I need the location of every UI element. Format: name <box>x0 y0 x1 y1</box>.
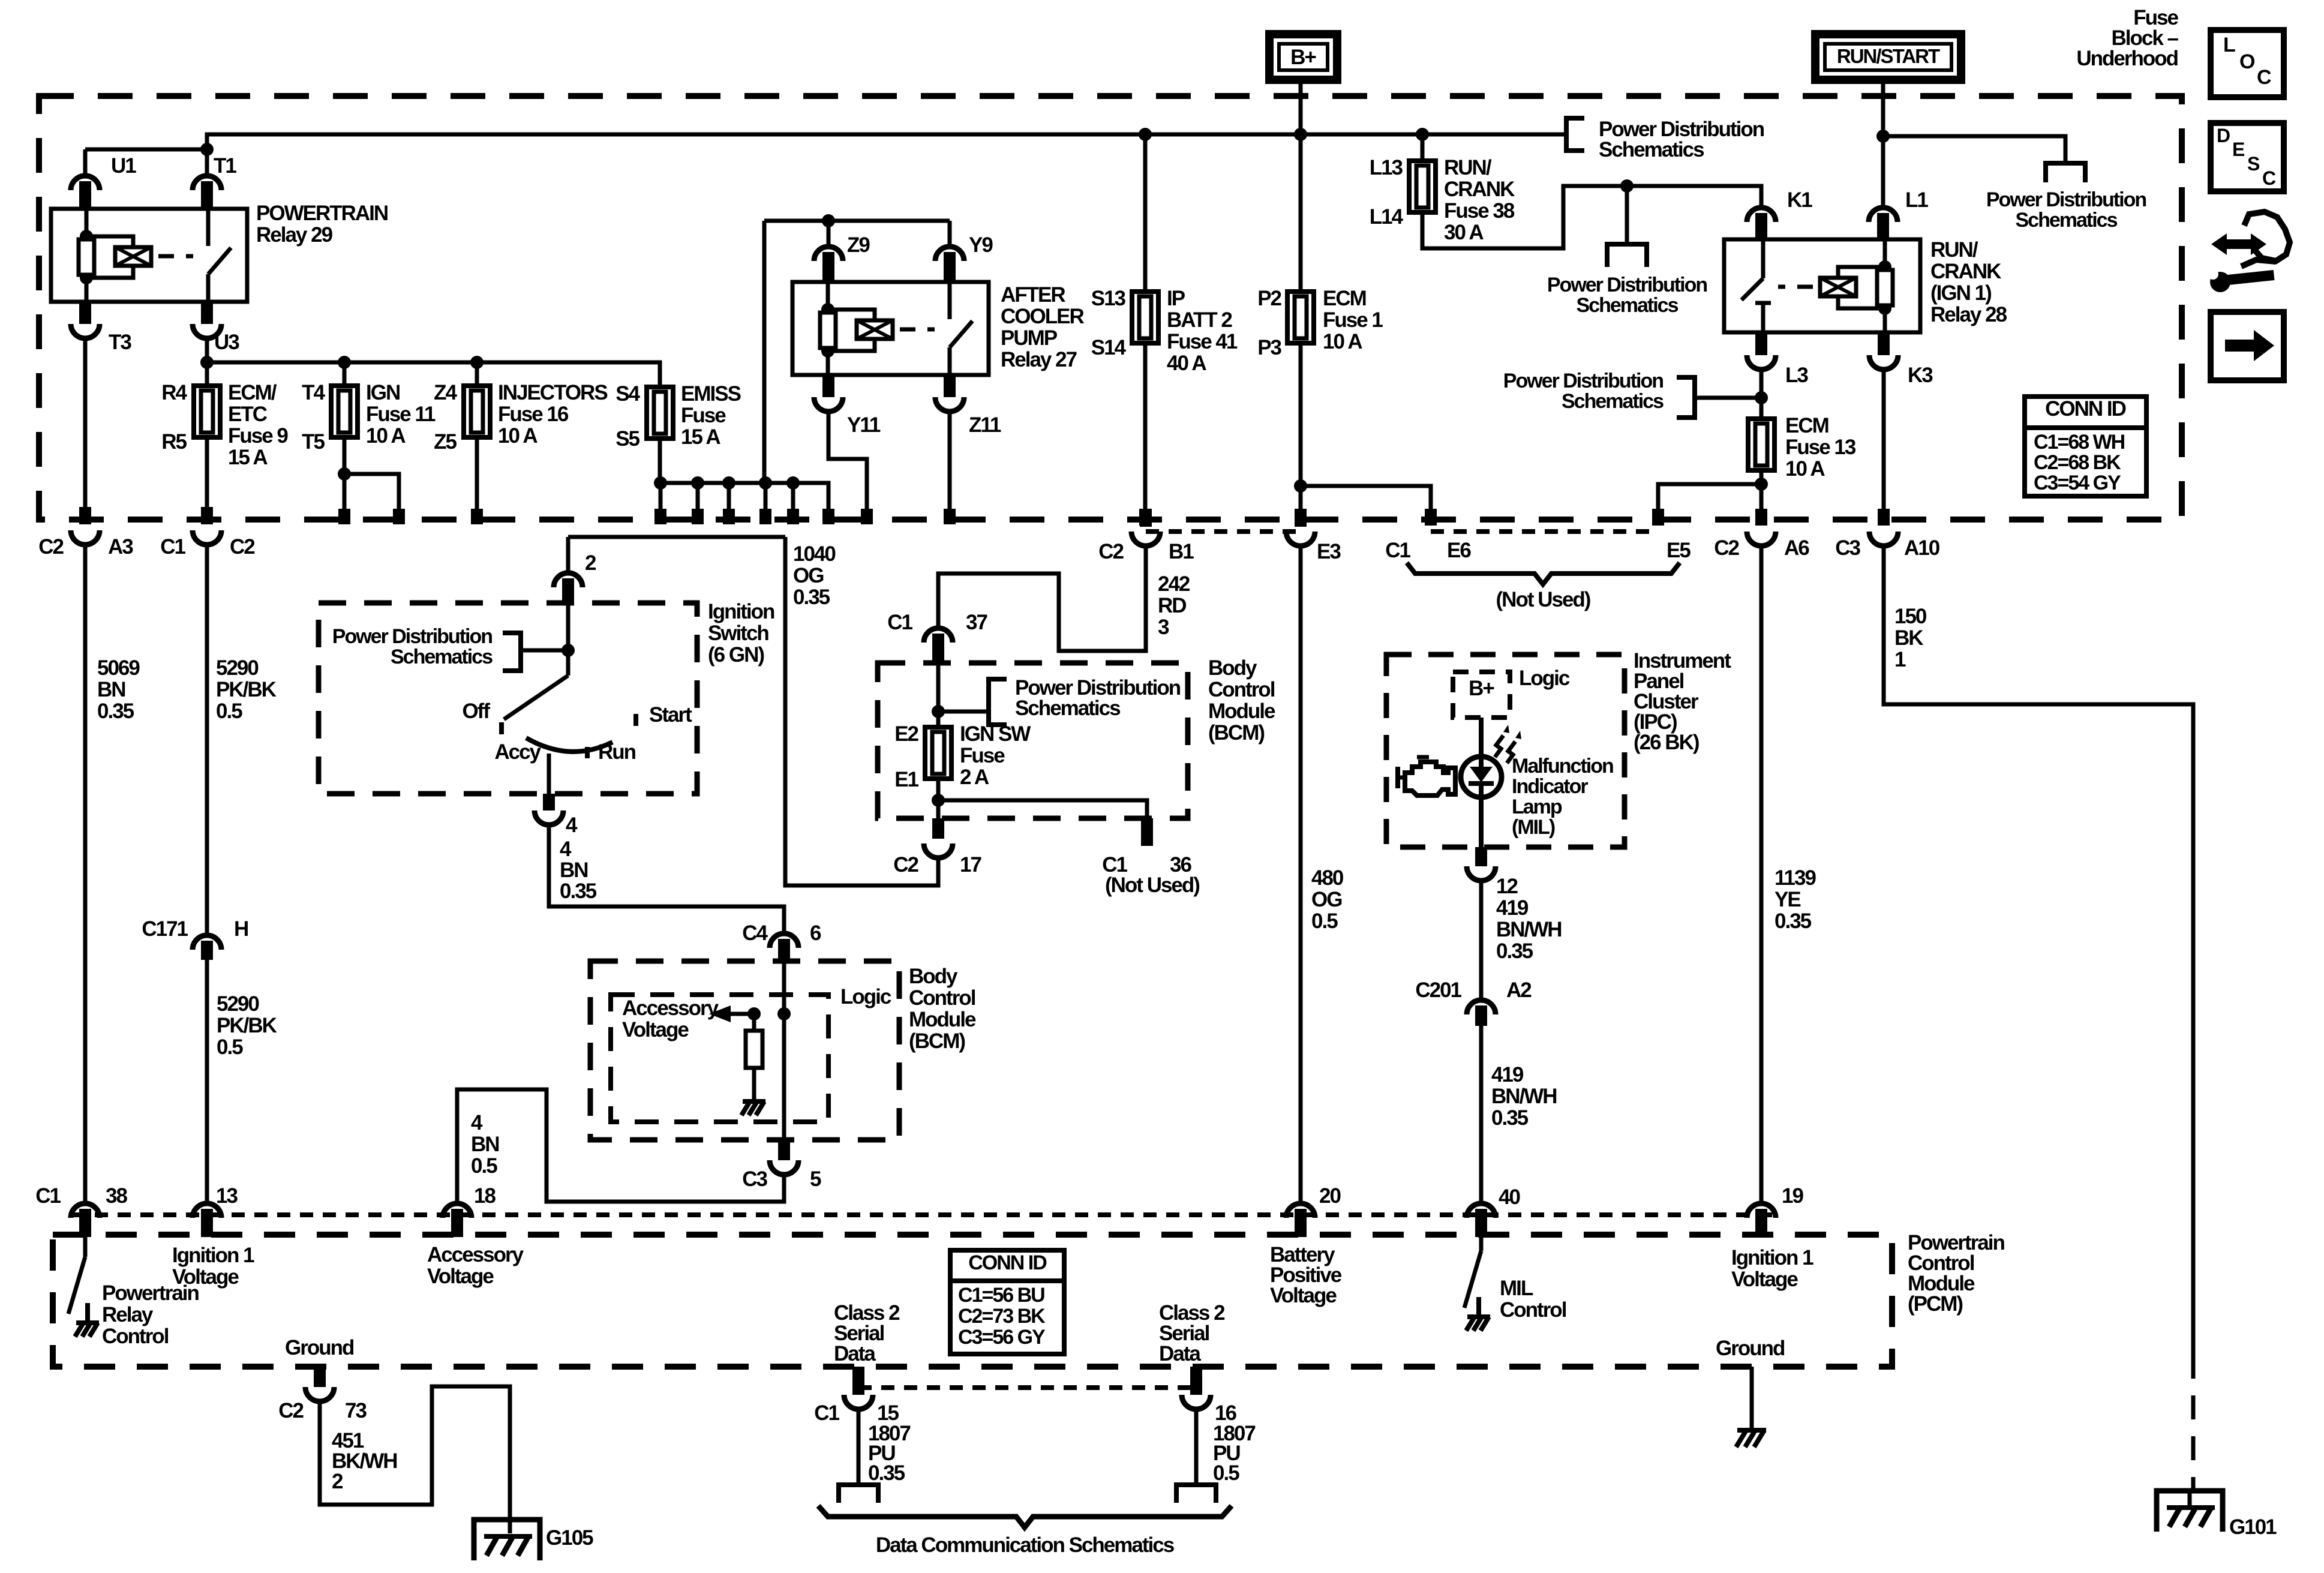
svg-text:0.5: 0.5 <box>1311 909 1338 933</box>
svg-text:R5: R5 <box>161 430 187 454</box>
svg-text:EMISS: EMISS <box>681 382 741 406</box>
wire U3 down to bus <box>205 336 209 362</box>
svg-text:E6: E6 <box>1447 539 1471 562</box>
reference bracket power distribution (BCM) <box>989 679 1007 725</box>
ignition rotary arc <box>526 738 612 752</box>
stub Y11 <box>822 375 834 397</box>
svg-text:E3: E3 <box>1317 540 1341 563</box>
svg-text:COOLER: COOLER <box>1001 305 1084 328</box>
svg-text:12: 12 <box>1496 875 1518 898</box>
connector Z9 <box>827 221 831 245</box>
svg-text:C2: C2 <box>38 535 64 559</box>
svg-text:(26 BK): (26 BK) <box>1634 731 1699 754</box>
CONN ID table (PCM) <box>950 1250 1064 1354</box>
svg-text:L3: L3 <box>1785 364 1808 387</box>
svg-text:INJECTORS: INJECTORS <box>498 381 607 404</box>
ignition switch dashed box <box>319 603 697 794</box>
connector 12 (IPC out) <box>1467 866 1496 881</box>
svg-text:C2: C2 <box>230 535 255 559</box>
svg-text:P3: P3 <box>1257 336 1281 359</box>
svg-text:ETC: ETC <box>228 403 268 426</box>
svg-text:G101: G101 <box>2229 1515 2277 1539</box>
svg-text:5: 5 <box>810 1167 821 1191</box>
svg-text:A6: A6 <box>1784 536 1809 560</box>
svg-text:Start: Start <box>649 703 692 727</box>
svg-text:T1: T1 <box>214 154 236 178</box>
svg-text:2: 2 <box>332 1470 343 1493</box>
wire 1139 YE to pin 19 <box>1759 545 1764 1201</box>
ground G105 <box>474 1520 540 1560</box>
svg-text:Schematics: Schematics <box>391 646 493 668</box>
svg-text:Power Distribution: Power Distribution <box>1547 274 1707 296</box>
wire fuse11 output to ignition switch 2 <box>568 535 785 539</box>
svg-text:OG: OG <box>1311 888 1342 911</box>
svg-text:Fuse 9: Fuse 9 <box>228 424 288 448</box>
brace (Not Used) E6-E5 <box>1407 563 1680 584</box>
svg-text:Ground: Ground <box>1716 1337 1785 1360</box>
svg-text:6: 6 <box>810 921 821 945</box>
svg-text:Z5: Z5 <box>434 430 457 454</box>
serial data pins dotted line <box>858 1385 1196 1390</box>
wire 150 BK to G101 <box>1884 545 2193 1355</box>
junction RUN/CRANK fuse tap <box>1416 128 1429 141</box>
svg-text:A2: A2 <box>1506 978 1532 1002</box>
wire L1 riser <box>1881 136 1885 206</box>
svg-text:20: 20 <box>1319 1184 1341 1208</box>
svg-text:A3: A3 <box>108 535 133 559</box>
svg-text:C171: C171 <box>142 917 188 941</box>
svg-text:C1=68 WH: C1=68 WH <box>2034 431 2125 454</box>
svg-text:Fuse 1: Fuse 1 <box>1323 308 1383 332</box>
svg-text:Fuse: Fuse <box>681 404 726 427</box>
connector C2/17 <box>924 843 953 858</box>
svg-text:ECM: ECM <box>1785 414 1828 437</box>
reference bracket power distribution (ignition) <box>503 633 521 671</box>
wire 4 BN 0.35 to C4 <box>549 824 784 932</box>
junction T1 riser <box>200 143 214 156</box>
svg-text:Voltage: Voltage <box>622 1018 689 1041</box>
svg-text:3: 3 <box>1158 616 1169 639</box>
svg-text:Fuse 41: Fuse 41 <box>1167 330 1238 353</box>
wire 419 to pin 40 <box>1479 1026 1484 1201</box>
connector 2 (ignition switch) <box>554 573 582 587</box>
svg-text:Module: Module <box>909 1008 976 1031</box>
svg-text:5290: 5290 <box>216 656 259 680</box>
svg-text:C1=56 BU: C1=56 BU <box>958 1284 1044 1307</box>
B+ power tag box <box>1269 34 1337 80</box>
connector U1 <box>71 176 100 190</box>
connector Y9 <box>948 221 952 245</box>
connector Z11 <box>935 397 964 412</box>
svg-text:18: 18 <box>474 1184 496 1208</box>
BCM lower logic dashed box <box>611 995 828 1122</box>
svg-text:IGN: IGN <box>366 381 400 404</box>
svg-text:C2: C2 <box>1714 536 1739 560</box>
svg-text:Ignition 1: Ignition 1 <box>1731 1246 1813 1269</box>
svg-text:BN: BN <box>97 678 125 701</box>
svg-text:Malfunction: Malfunction <box>1512 755 1613 778</box>
wire 451 BK/WH to G105 <box>320 1386 510 1533</box>
svg-text:POWERTRAIN: POWERTRAIN <box>256 202 388 225</box>
svg-text:Relay: Relay <box>102 1303 154 1326</box>
wire 5290 PK/BK lower <box>205 960 209 1202</box>
connector Y11 <box>814 397 843 412</box>
svg-text:BN: BN <box>560 858 588 882</box>
svg-text:Z11: Z11 <box>969 413 1001 437</box>
wire 5290 PK/BK upper <box>205 544 209 933</box>
svg-text:40: 40 <box>1499 1185 1520 1209</box>
connector C3/A10 <box>1869 532 1898 546</box>
svg-text:17: 17 <box>960 853 981 876</box>
wire 4 BN 0.5 to PCM pin 18 <box>457 1089 784 1202</box>
connector C3/5 <box>770 1160 798 1175</box>
relay AFTER COOLER PUMP Relay 27 <box>792 282 989 375</box>
svg-text:(BCM): (BCM) <box>909 1029 965 1053</box>
wire 1040 OG <box>785 537 938 885</box>
svg-text:0.35: 0.35 <box>560 879 597 903</box>
svg-text:Ignition 1: Ignition 1 <box>172 1244 254 1267</box>
svg-text:(BCM): (BCM) <box>1208 721 1264 745</box>
main bus wire <box>85 148 207 152</box>
MIL control switch <box>1479 1237 1484 1251</box>
fuse ECM/ETC Fuse 9 <box>205 362 209 386</box>
svg-text:(Not Used): (Not Used) <box>1105 873 1199 897</box>
connectors E6/E5 not used <box>1431 529 1658 534</box>
svg-text:AFTER: AFTER <box>1001 283 1065 307</box>
svg-text:BN/WH: BN/WH <box>1491 1085 1557 1108</box>
wire fuse38 to relay28 K1 <box>1422 186 1761 248</box>
svg-text:10 A: 10 A <box>498 424 538 448</box>
connector T3 <box>71 324 100 338</box>
wire fuse41 to edge <box>1143 343 1148 509</box>
fuse IGN Fuse 11 <box>343 362 347 386</box>
connector pin 13 <box>193 1203 221 1218</box>
svg-text:Y11: Y11 <box>847 413 881 437</box>
svg-text:0.35: 0.35 <box>1496 939 1533 963</box>
svg-text:L1: L1 <box>1905 188 1928 212</box>
wire B+ to bus <box>1299 80 1303 134</box>
svg-text:4: 4 <box>560 837 572 861</box>
svg-text:U1: U1 <box>111 154 136 178</box>
svg-text:RUN/START: RUN/START <box>1837 45 1940 67</box>
svg-text:0.5: 0.5 <box>471 1154 497 1178</box>
wire into switch <box>566 603 571 676</box>
svg-text:Ground: Ground <box>285 1336 354 1359</box>
terminator (pin 15) <box>839 1485 878 1503</box>
stub K3 <box>1878 332 1890 355</box>
comb bus above fuse block bottom edge <box>660 483 828 509</box>
svg-text:15 A: 15 A <box>681 425 720 449</box>
svg-text:Fuse 16: Fuse 16 <box>498 403 569 426</box>
wire K3 to edge <box>1882 367 1886 509</box>
engine icon <box>1395 767 1400 788</box>
connector pin 18 <box>443 1203 472 1218</box>
fuse RUN/CRANK Fuse 38 <box>1421 134 1425 161</box>
svg-text:U3: U3 <box>214 331 239 354</box>
ignition Run contact <box>585 747 590 758</box>
connector C201/A2 <box>1467 1000 1496 1014</box>
connector pin 19 <box>1747 1203 1776 1218</box>
svg-text:G105: G105 <box>546 1526 593 1550</box>
svg-text:Data: Data <box>1159 1342 1201 1365</box>
svg-text:Z9: Z9 <box>847 233 870 257</box>
wire C4/6 into BCM <box>782 961 786 1140</box>
svg-text:Relay 29: Relay 29 <box>256 223 333 247</box>
junction IP BATT 2 tap <box>1139 128 1152 141</box>
connector pin 20 <box>1286 1203 1315 1218</box>
svg-text:IGN SW: IGN SW <box>960 722 1031 746</box>
icon wrench and arrow <box>2211 233 2266 255</box>
wire Accy output <box>547 754 551 794</box>
svg-text:T3: T3 <box>109 331 131 354</box>
svg-text:(PCM): (PCM) <box>1908 1292 1962 1316</box>
svg-text:K3: K3 <box>1908 364 1933 387</box>
svg-text:H: H <box>234 917 248 941</box>
svg-text:C201: C201 <box>1415 978 1461 1002</box>
svg-text:Relay 27: Relay 27 <box>1001 348 1077 371</box>
connector C2/73 ground pin <box>314 1367 326 1387</box>
svg-text:0.35: 0.35 <box>1491 1106 1529 1130</box>
connector K3 <box>1869 355 1898 370</box>
svg-text:Data: Data <box>834 1342 876 1365</box>
wire 1807 PU 0.35 <box>857 1408 861 1485</box>
connector C4/6 <box>770 933 798 948</box>
connector C1/37 <box>924 628 953 643</box>
wire fuse13 to edge with E5 jog <box>1759 470 1764 509</box>
svg-text:C2=68 BK: C2=68 BK <box>2034 451 2121 474</box>
wire U1 riser <box>83 149 88 174</box>
svg-text:Run: Run <box>598 740 636 764</box>
svg-text:B1: B1 <box>1169 540 1194 563</box>
wire 1807 PU 0.5 <box>1194 1408 1199 1485</box>
svg-text:Logic: Logic <box>1519 667 1570 690</box>
svg-text:A10: A10 <box>1904 536 1940 560</box>
reference bracket power distribution (fuse13) <box>1677 377 1695 418</box>
svg-text:C2: C2 <box>1098 540 1124 563</box>
svg-text:13: 13 <box>216 1184 238 1208</box>
relay POWERTRAIN Relay 29 <box>51 209 247 302</box>
svg-text:37: 37 <box>966 611 987 634</box>
svg-text:(6 GN): (6 GN) <box>708 643 764 667</box>
svg-text:OG: OG <box>793 564 824 587</box>
connector L3 <box>1747 355 1776 370</box>
svg-text:0.35: 0.35 <box>868 1461 905 1485</box>
svg-text:Voltage: Voltage <box>427 1265 494 1288</box>
svg-text:E2: E2 <box>894 722 918 746</box>
svg-text:C: C <box>2257 66 2271 89</box>
svg-text:C: C <box>2262 167 2276 189</box>
svg-text:T5: T5 <box>302 430 325 454</box>
accessory voltage arrow <box>747 1007 761 1020</box>
svg-text:CONN ID: CONN ID <box>2045 397 2126 421</box>
svg-text:15 A: 15 A <box>228 446 268 469</box>
svg-text:L14: L14 <box>1370 205 1404 229</box>
svg-text:19: 19 <box>1782 1184 1803 1208</box>
PCM pin dotted line <box>72 1212 1776 1217</box>
svg-text:Control: Control <box>1500 1298 1566 1322</box>
ignition switch blade <box>504 676 568 719</box>
svg-text:O: O <box>2239 50 2255 73</box>
svg-text:Logic: Logic <box>840 985 891 1008</box>
ground G101 <box>2157 1491 2223 1532</box>
wire T3 down to fuse block edge <box>83 336 88 507</box>
svg-text:BN: BN <box>471 1133 499 1156</box>
svg-text:C2: C2 <box>278 1399 304 1422</box>
svg-text:0.5: 0.5 <box>1213 1461 1239 1485</box>
svg-text:73: 73 <box>345 1399 367 1422</box>
wire Z11 to edge <box>948 409 952 509</box>
svg-text:PK/BK: PK/BK <box>217 1014 277 1037</box>
svg-text:Schematics: Schematics <box>1599 138 1704 161</box>
svg-text:S4: S4 <box>615 382 640 406</box>
resistor (BCM pull down) <box>752 1014 756 1031</box>
svg-text:C1: C1 <box>887 611 912 634</box>
icon arrow box <box>2211 312 2284 380</box>
svg-text:E1: E1 <box>894 768 918 791</box>
CONN ID table (fuse block) <box>2025 397 2146 496</box>
svg-text:C2: C2 <box>893 853 918 876</box>
svg-text:C3: C3 <box>742 1167 767 1191</box>
svg-text:30 A: 30 A <box>1444 221 1484 244</box>
terminator (pin 16) <box>1176 1485 1216 1503</box>
MIL indicator lamp <box>1461 757 1502 797</box>
svg-text:419: 419 <box>1496 896 1529 920</box>
svg-text:CRANK: CRANK <box>1930 260 2001 283</box>
wire C1/37 to fuse <box>936 663 941 727</box>
fuse block - underhood dashed box <box>39 96 2182 520</box>
svg-text:ECM: ECM <box>1323 287 1366 310</box>
stub Z11 <box>944 375 956 397</box>
wire fuse1 to edge with E6 jog <box>1299 343 1303 509</box>
svg-text:CRANK: CRANK <box>1444 178 1515 201</box>
svg-text:480: 480 <box>1311 866 1344 890</box>
svg-text:Power Distribution: Power Distribution <box>1986 188 2146 211</box>
connector 16 <box>1190 1367 1202 1388</box>
IPC dashed box <box>1386 655 1625 847</box>
connector pin 40 <box>1467 1203 1496 1218</box>
svg-text:Power Distribution: Power Distribution <box>1503 370 1663 392</box>
svg-text:0.35: 0.35 <box>1774 909 1812 933</box>
svg-text:S13: S13 <box>1091 287 1126 310</box>
svg-text:Accessory: Accessory <box>427 1243 524 1266</box>
icon LOC box <box>2211 30 2284 97</box>
svg-text:RD: RD <box>1158 594 1186 617</box>
svg-text:T4: T4 <box>302 381 325 404</box>
stub L3 <box>1755 332 1767 355</box>
wire 242 RD from B1 to BCM C1/37 <box>1140 509 1152 527</box>
svg-text:2 A: 2 A <box>960 766 989 789</box>
svg-text:419: 419 <box>1491 1063 1524 1086</box>
ground (BCM logic) <box>743 1099 765 1104</box>
wire 5069 BN to PCM pin 38 <box>83 544 88 1202</box>
svg-text:B+: B+ <box>1290 46 1316 69</box>
svg-text:Fuse: Fuse <box>960 744 1005 767</box>
svg-text:C2=73 BK: C2=73 BK <box>958 1305 1046 1328</box>
fuse IGN SW Fuse 2A <box>925 727 951 779</box>
svg-text:S: S <box>2247 153 2260 175</box>
RUN/START power tag box <box>1815 34 1961 80</box>
svg-text:Schematics: Schematics <box>1577 294 1679 317</box>
svg-text:2: 2 <box>585 551 596 575</box>
wire relay27 feed riser <box>762 221 767 483</box>
svg-text:0.5: 0.5 <box>217 1035 243 1059</box>
svg-text:S14: S14 <box>1091 336 1127 359</box>
svg-text:1139: 1139 <box>1774 866 1816 890</box>
svg-text:PUMP: PUMP <box>1001 326 1058 350</box>
svg-text:Off: Off <box>462 700 490 723</box>
svg-text:BATT 2: BATT 2 <box>1167 308 1232 332</box>
connector K1 <box>1747 208 1776 222</box>
svg-text:Schematics: Schematics <box>2016 209 2118 232</box>
svg-text:K1: K1 <box>1787 188 1812 212</box>
svg-text:C3: C3 <box>1835 536 1860 560</box>
svg-text:Body: Body <box>909 965 958 988</box>
relay RUN/CRANK (IGN 1) Relay 28 <box>1724 239 1920 332</box>
svg-text:10 A: 10 A <box>366 424 406 448</box>
svg-text:Lamp: Lamp <box>1512 795 1562 818</box>
connector U3 <box>193 324 221 338</box>
svg-text:(MIL): (MIL) <box>1512 816 1555 839</box>
svg-text:Body: Body <box>1208 656 1257 680</box>
BCM upper dashed box <box>878 663 1188 818</box>
svg-text:(IGN 1): (IGN 1) <box>1930 281 1991 305</box>
reference drop power distribution (fuse38) <box>1625 186 1629 244</box>
connector C1/15 <box>852 1367 864 1388</box>
ground (relay control) <box>76 1320 99 1325</box>
svg-text:RUN/: RUN/ <box>1444 156 1492 179</box>
brace data communication <box>818 1506 1232 1527</box>
svg-text:C3=56 GY: C3=56 GY <box>958 1326 1046 1349</box>
wire dashed to G101 <box>2191 1355 2196 1490</box>
svg-text:5069: 5069 <box>97 656 140 680</box>
svg-text:Data Communication Schematics: Data Communication Schematics <box>876 1533 1175 1557</box>
svg-text:10 A: 10 A <box>1785 457 1825 481</box>
ground (MIL control) <box>1467 1314 1490 1319</box>
svg-text:C1: C1 <box>160 535 185 559</box>
svg-text:Switch: Switch <box>708 622 768 645</box>
ground (PCM right) <box>1737 1428 1766 1433</box>
svg-text:Indicator: Indicator <box>1512 775 1588 798</box>
svg-text:L: L <box>2223 34 2235 56</box>
svg-text:4: 4 <box>471 1111 483 1134</box>
svg-text:242: 242 <box>1158 572 1190 596</box>
svg-text:40 A: 40 A <box>1167 352 1206 375</box>
svg-text:5290: 5290 <box>217 992 259 1016</box>
svg-text:R4: R4 <box>161 381 187 404</box>
svg-text:4: 4 <box>566 813 578 837</box>
svg-text:BN/WH: BN/WH <box>1496 918 1562 941</box>
svg-text:S5: S5 <box>615 427 639 451</box>
connector E3 <box>1295 509 1307 527</box>
wire fuse9 to edge <box>205 437 209 507</box>
B+ logic dashed box <box>1453 672 1510 718</box>
wire T1 riser <box>205 149 209 174</box>
wire fuse11 to edge with branch <box>343 437 347 474</box>
svg-text:Z4: Z4 <box>434 381 457 404</box>
fuse ECM Fuse 13 <box>1748 419 1774 470</box>
wire MIL lamp to C201 <box>1479 798 1484 847</box>
svg-text:CONN ID: CONN ID <box>968 1251 1047 1274</box>
svg-text:0.35: 0.35 <box>793 586 830 609</box>
svg-text:C4: C4 <box>742 921 768 945</box>
svg-text:Ignition: Ignition <box>708 600 774 623</box>
svg-text:Control: Control <box>909 986 975 1010</box>
lightning arrows <box>1495 736 1503 757</box>
connector C2/A6 <box>1747 532 1776 546</box>
PCM dashed box <box>53 1235 1892 1367</box>
wire fuse E1 to C2/17 and C1/36 <box>936 779 941 818</box>
wire L3 to ECM fuse 13 <box>1759 367 1764 419</box>
